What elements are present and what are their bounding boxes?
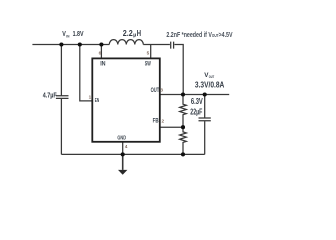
svg-text:2.2nF *needed if VOUT>4.5V: 2.2nF *needed if VOUT>4.5V [166,32,232,39]
wire SW pin drop [150,45,152,59]
svg-text:6.3V: 6.3V [191,97,203,106]
svg-text:SW: SW [145,61,152,68]
capacitor 22uF output [199,95,211,121]
wire GND pin drop [122,142,124,155]
svg-text:3.3V/0.8A: 3.3V/0.8A [195,80,224,89]
wire VOUT output rail [160,94,229,96]
inductor L 2.2uH [109,40,143,45]
svg-text:22µF: 22µF [190,108,202,117]
svg-text:5: 5 [147,51,150,56]
junction dot 4.7uF tap [59,42,63,46]
svg-text:OUT: OUT [151,87,160,94]
wire 4.7uF bottom to ground rail [60,99,62,155]
capacitor 2.2nF [171,42,174,49]
junction dot ground GND pin [121,152,125,156]
svg-text:1: 1 [89,94,92,99]
ground symbol [118,154,127,174]
svg-text:EN: EN [95,98,99,104]
svg-text:FB: FB [153,118,159,125]
junction dot VOUT / 22uF [203,92,207,96]
wire SW node rail [143,44,170,46]
svg-text:4.7µF: 4.7µF [43,93,57,100]
wire 22uF bottom [204,121,206,154]
svg-text:1.8V: 1.8V [73,29,85,38]
svg-text:2.2: 2.2 [123,29,134,38]
wire ground rail [61,153,204,155]
wire EN pin from VIN [80,45,93,101]
wire IN pin drop [100,45,102,59]
svg-text:3: 3 [160,87,163,92]
svg-text:IN: IN [100,61,106,68]
svg-text:4: 4 [125,144,128,149]
svg-text:GND: GND [117,136,126,142]
junction dot VOUT / R divider [181,92,185,96]
wire VIN input rail [32,44,109,46]
IC U1 boost converter [92,58,160,141]
resistor R lower (divider) [180,127,187,154]
svg-text:IN: IN [66,33,69,38]
junction dot EN tap [78,42,82,46]
junction dot FB node [181,125,185,129]
wire 2.2nF to VOUT node [174,45,183,95]
svg-text:H: H [137,29,142,38]
resistor R upper (divider) [180,95,187,128]
svg-text:6: 6 [99,51,102,56]
wire FB pin [160,126,183,128]
svg-text:2: 2 [162,119,165,124]
junction dot IN tap [99,42,103,46]
junction dot ground R divider [181,152,185,156]
svg-text:OUT: OUT [209,75,215,79]
capacitor 4.7uF input [56,45,69,99]
